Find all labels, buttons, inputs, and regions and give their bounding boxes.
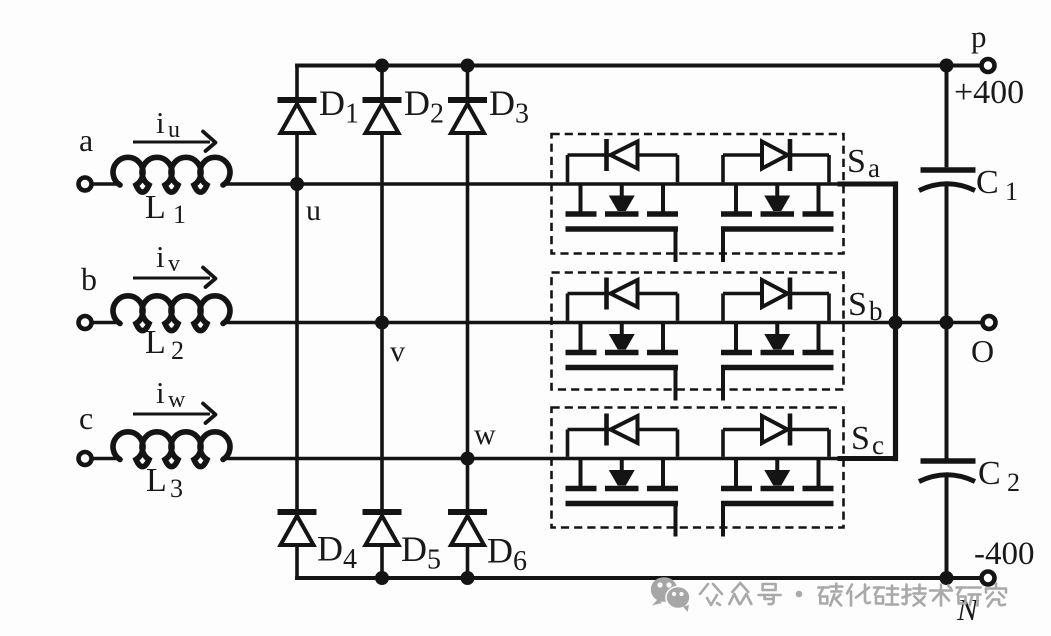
svg-text:a: a	[868, 153, 880, 183]
svg-text:C: C	[978, 455, 1001, 492]
svg-text:u: u	[168, 117, 180, 143]
svg-text:S: S	[851, 420, 870, 457]
svg-text:w: w	[168, 387, 186, 413]
svg-text:a: a	[79, 122, 93, 158]
label i_u	[156, 105, 180, 143]
label D1	[319, 83, 359, 130]
node top rail / D2	[375, 59, 389, 73]
diode D2	[363, 100, 402, 133]
body diode of Qa2 (right MOSFET of cell Sa)	[723, 139, 829, 182]
label Sb	[848, 286, 883, 326]
body diode of Qc2 (right MOSFET of cell Sc)	[723, 414, 829, 457]
label v	[390, 335, 405, 368]
watermark text (stylized grey glyphs)	[700, 583, 1006, 607]
terminal a	[79, 178, 92, 191]
body diode of Qb2 (right MOSFET of cell Sb)	[723, 278, 829, 321]
label a	[79, 122, 93, 158]
svg-text:O: O	[971, 333, 994, 369]
watermark: WeChat official account logo	[651, 577, 690, 612]
svg-text:u: u	[306, 194, 321, 227]
node N rail / DC bus	[940, 571, 954, 585]
label N	[956, 592, 980, 627]
svg-text:4: 4	[343, 544, 357, 575]
label D4	[317, 529, 357, 576]
bidirectional switch cell Sc dashed box	[552, 408, 844, 528]
wire diode column 1 (D1/D4)	[295, 64, 299, 580]
terminal O	[983, 316, 996, 329]
svg-text:1: 1	[173, 200, 186, 229]
svg-text:b: b	[81, 261, 97, 297]
svg-text:2: 2	[1007, 468, 1020, 497]
svg-text:D: D	[487, 531, 513, 571]
terminal b	[79, 316, 92, 329]
svg-text:2: 2	[171, 336, 184, 365]
label D5	[401, 529, 441, 576]
label C2	[978, 455, 1020, 497]
wire diode column 3 (D3/D6)	[466, 64, 470, 580]
label i_v	[156, 239, 180, 277]
svg-text:D: D	[401, 529, 427, 569]
MOSFET Qb1 (left transistor of cell Sb)	[566, 323, 679, 401]
svg-text:+400: +400	[954, 74, 1024, 111]
svg-text:c: c	[79, 400, 93, 436]
label c	[79, 400, 93, 436]
svg-text:C: C	[976, 164, 999, 201]
bidirectional switch cell Sb dashed box	[552, 273, 844, 390]
node node v	[375, 316, 389, 330]
label L1	[145, 189, 186, 229]
MOSFET Qc2 (right transistor of cell Sc)	[721, 459, 834, 537]
label L2	[145, 324, 184, 365]
label D2	[404, 83, 444, 130]
label Sa	[847, 143, 880, 183]
node switch bus / O line	[889, 316, 903, 330]
label i_w	[156, 375, 186, 413]
body diode of Qc1 (left MOSFET of cell Sc)	[568, 414, 678, 457]
svg-text:L: L	[146, 462, 167, 499]
wire phase c / node w line	[91, 457, 896, 461]
svg-text:c: c	[872, 430, 884, 460]
MOSFET Qb2 (right transistor of cell Sb)	[721, 323, 834, 401]
label C1	[976, 164, 1018, 206]
diode D6	[448, 512, 487, 545]
inductor L2	[113, 296, 230, 331]
svg-text:b: b	[869, 296, 883, 326]
label D6	[487, 531, 527, 578]
label w	[474, 418, 496, 451]
MOSFET Qc1 (left transistor of cell Sc)	[566, 459, 679, 537]
inductor L1	[113, 157, 230, 192]
diode D5	[363, 512, 402, 545]
svg-text:D: D	[319, 83, 345, 123]
diode D1	[278, 100, 317, 133]
current arrow i_v	[133, 268, 216, 288]
diode D4	[278, 512, 317, 545]
terminal p	[982, 59, 995, 72]
svg-text:3: 3	[170, 474, 183, 503]
wire switch output bus to node O	[838, 181, 896, 461]
bidirectional switch cell Sa dashed box	[552, 134, 844, 254]
svg-text:-400: -400	[974, 536, 1035, 572]
node bottom rail / D5	[375, 571, 389, 585]
node bottom rail / D6	[461, 571, 475, 585]
svg-text:D: D	[404, 83, 430, 123]
diode D3	[448, 100, 487, 133]
label L3	[146, 462, 183, 503]
svg-text:1: 1	[345, 99, 359, 130]
node top rail / D3	[461, 59, 475, 73]
wire phase a / node u line	[91, 182, 896, 186]
node node u	[290, 177, 304, 191]
node DC bus / O line	[940, 316, 954, 330]
wire phase b / node v line to O	[91, 321, 984, 325]
node p rail / DC bus	[940, 59, 954, 73]
svg-text:D: D	[489, 83, 515, 123]
label u	[306, 194, 321, 227]
label -400	[974, 536, 1035, 572]
current arrow i_u	[133, 132, 216, 152]
svg-text:D: D	[317, 529, 343, 569]
terminal c	[79, 452, 92, 465]
label +400	[954, 74, 1024, 111]
svg-text:S: S	[848, 286, 867, 323]
svg-text:L: L	[145, 324, 166, 361]
svg-text:S: S	[847, 143, 866, 180]
svg-text:2: 2	[430, 99, 444, 130]
svg-text:1: 1	[1005, 177, 1018, 206]
label D3	[489, 83, 529, 130]
body diode of Qb1 (left MOSFET of cell Sb)	[568, 278, 678, 321]
svg-text:p: p	[971, 19, 987, 54]
current arrow i_w	[133, 404, 216, 424]
svg-text:i: i	[156, 105, 165, 140]
label p	[971, 19, 987, 54]
MOSFET Qa1 (left transistor of cell Sa)	[566, 184, 679, 262]
capacitor C1	[919, 170, 976, 191]
svg-text:i: i	[156, 239, 165, 274]
capacitor C2	[919, 461, 976, 482]
svg-text:w: w	[474, 418, 496, 451]
svg-text:L: L	[145, 189, 166, 226]
label b	[81, 261, 97, 297]
inductor L3	[113, 432, 230, 467]
wire diode column 2 (D2/D5)	[380, 64, 384, 580]
wire top positive rail p	[295, 64, 981, 68]
wire bottom negative rail N	[295, 576, 981, 580]
label Sc	[851, 420, 884, 460]
wire DC-link bus	[945, 66, 949, 579]
node node w	[461, 452, 475, 466]
body diode of Qa1 (left MOSFET of cell Sa)	[568, 139, 678, 182]
svg-text:3: 3	[515, 99, 529, 130]
MOSFET Qa2 (right transistor of cell Sa)	[721, 184, 834, 262]
svg-text:6: 6	[513, 546, 527, 577]
svg-text:v: v	[390, 335, 405, 368]
svg-text:v: v	[168, 251, 180, 277]
svg-text:i: i	[156, 375, 165, 410]
label O	[971, 333, 994, 369]
svg-text:5: 5	[427, 545, 441, 576]
terminal N	[982, 572, 995, 585]
